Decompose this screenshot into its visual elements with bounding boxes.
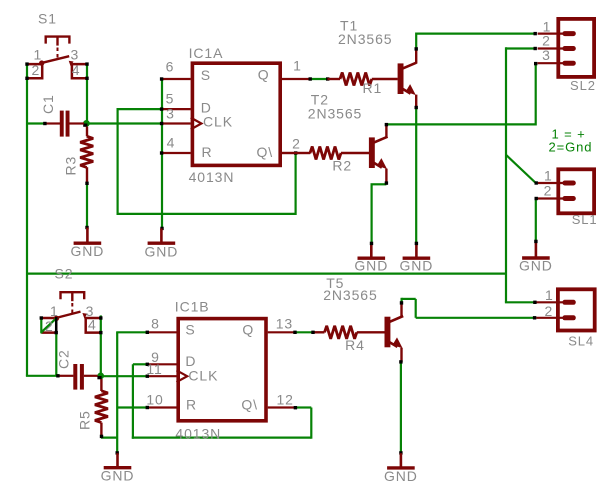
svg-text:R: R — [186, 396, 197, 412]
svg-text:CLK: CLK — [203, 113, 233, 129]
svg-text:11: 11 — [146, 361, 162, 377]
svg-text:2: 2 — [32, 62, 41, 78]
svg-text:GND: GND — [144, 243, 178, 259]
svg-text:3: 3 — [166, 105, 175, 121]
svg-text:GND: GND — [354, 257, 388, 273]
svg-text:GND: GND — [384, 468, 418, 484]
svg-text:Q\: Q\ — [241, 396, 258, 412]
svg-text:2: 2 — [542, 33, 551, 49]
svg-text:2N3565: 2N3565 — [338, 31, 392, 47]
svg-text:4: 4 — [88, 317, 97, 333]
svg-text:SL1: SL1 — [572, 212, 598, 227]
svg-text:4013N: 4013N — [189, 169, 235, 185]
svg-text:GND: GND — [70, 243, 104, 259]
svg-text:3: 3 — [542, 47, 551, 63]
svg-text:IC1A: IC1A — [189, 45, 224, 61]
svg-text:1: 1 — [545, 287, 554, 303]
svg-text:R5: R5 — [77, 410, 93, 430]
svg-text:Q: Q — [258, 66, 270, 82]
svg-text:SL2: SL2 — [570, 78, 596, 93]
svg-text:1: 1 — [293, 57, 302, 73]
svg-text:R4: R4 — [345, 337, 365, 353]
svg-text:5: 5 — [166, 91, 175, 107]
svg-text:12: 12 — [277, 392, 294, 408]
svg-text:2=Gnd: 2=Gnd — [549, 139, 593, 154]
svg-text:S: S — [185, 322, 195, 338]
svg-text:R: R — [202, 144, 213, 160]
svg-text:1: 1 — [34, 47, 43, 63]
svg-text:GND: GND — [519, 257, 553, 273]
svg-text:2N3565: 2N3565 — [308, 105, 362, 121]
svg-text:4013N: 4013N — [175, 425, 221, 441]
svg-text:4: 4 — [72, 62, 81, 78]
svg-text:GND: GND — [101, 467, 135, 483]
svg-text:S: S — [201, 67, 211, 83]
svg-text:6: 6 — [166, 58, 175, 74]
svg-text:C1: C1 — [40, 94, 56, 114]
svg-text:2N3565: 2N3565 — [323, 287, 377, 303]
svg-text:1: 1 — [544, 168, 553, 184]
svg-text:R3: R3 — [63, 156, 79, 176]
svg-text:Q: Q — [242, 322, 254, 338]
svg-text:8: 8 — [151, 315, 160, 331]
svg-text:2: 2 — [544, 303, 553, 319]
svg-text:13: 13 — [276, 315, 293, 331]
svg-text:R1: R1 — [363, 80, 383, 96]
svg-text:1: 1 — [50, 303, 59, 319]
svg-text:3: 3 — [71, 47, 80, 63]
svg-text:S2: S2 — [55, 266, 74, 282]
svg-text:2: 2 — [292, 135, 301, 151]
svg-text:R2: R2 — [332, 157, 352, 173]
svg-text:GND: GND — [399, 257, 433, 273]
svg-text:4: 4 — [167, 134, 176, 150]
svg-text:IC1B: IC1B — [175, 299, 210, 315]
svg-text:2: 2 — [45, 318, 54, 334]
svg-text:2: 2 — [544, 183, 553, 199]
svg-text:SL4: SL4 — [568, 333, 594, 348]
svg-text:S1: S1 — [38, 10, 57, 26]
svg-text:10: 10 — [146, 392, 163, 408]
svg-text:C2: C2 — [56, 349, 72, 369]
svg-text:Q\: Q\ — [257, 144, 274, 160]
svg-text:CLK: CLK — [188, 367, 218, 383]
